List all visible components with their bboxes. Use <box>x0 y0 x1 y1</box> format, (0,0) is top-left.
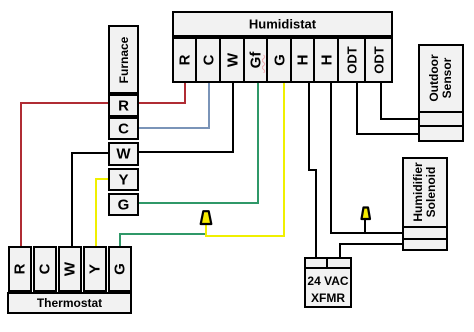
thermostat terminal C <box>33 246 57 292</box>
humidistat header box <box>172 11 393 37</box>
outdoor sensor box <box>418 44 464 142</box>
thermostat terminal W <box>58 246 82 292</box>
wire: green horizontal thermostat G to wire nut <box>119 233 205 235</box>
humidifier solenoid label area <box>402 157 448 226</box>
wire: black ODT2 down <box>380 83 382 120</box>
outdoor sensor divider 1 <box>420 111 462 113</box>
red squiggle under Gf <box>262 54 267 73</box>
wire: red humidistat R down <box>184 83 186 104</box>
wire: black H1 jog right <box>308 169 317 171</box>
humidistat terminal H (first) <box>291 37 315 83</box>
furnace terminal R <box>108 94 139 117</box>
furnace terminal G <box>108 193 139 216</box>
humidistat terminal divider C|W <box>219 37 221 83</box>
humidistat terminal Gf <box>243 37 268 83</box>
wire: blue horizontal to furnace C <box>139 127 210 129</box>
wire: black humidistat W down <box>232 83 234 153</box>
wire: green vertical up from thermostat G <box>119 233 121 246</box>
thermostat terminal Y <box>83 246 107 292</box>
humidistat terminal R <box>172 37 197 83</box>
humidistat terminal divider Gf|G <box>266 37 268 83</box>
furnace terminal C <box>108 117 139 140</box>
wire: black horizontal XFMR to solenoid <box>339 243 403 245</box>
humidistat terminal divider ODT|ODT <box>364 37 366 83</box>
wire: black ODT1 down <box>356 83 358 135</box>
humidistat terminal strip <box>172 37 393 83</box>
XFMR terminal row divider <box>306 267 350 269</box>
outdoor sensor divider 2 <box>420 125 462 127</box>
thermostat label box <box>7 292 132 314</box>
humidifier solenoid box <box>402 157 448 251</box>
outdoor sensor label area <box>418 44 464 112</box>
furnace header box <box>108 25 139 94</box>
wire: black H1 vertical down to XFMR left terminal <box>315 169 317 257</box>
wire: black humidistat H2 down <box>330 83 332 234</box>
thermostat terminal G <box>108 246 132 292</box>
humidistat terminal ODT (second) <box>365 37 393 83</box>
XFMR label <box>304 272 352 308</box>
wire: yellow vertical up to humidistat G <box>283 83 285 237</box>
humidistat terminal divider W|Gf <box>243 37 245 83</box>
wire: red horizontal left of furnace R <box>20 102 108 104</box>
humidistat terminal divider R|C <box>195 37 197 83</box>
wire nut 1 (yellow trapezoid splice) <box>197 209 215 227</box>
wire nut 2 (yellow trapezoid splice) <box>358 205 374 222</box>
wire: red horizontal furnace R right to humidistat R <box>139 102 186 104</box>
furnace terminal W <box>108 142 139 166</box>
wire: blue humidistat C down <box>208 83 210 129</box>
wire: black XFMR right terminal up <box>339 243 341 257</box>
humidistat terminal C <box>196 37 221 83</box>
wire: green horizontal to furnace G <box>139 202 259 204</box>
wire: red vertical down to thermostat R <box>20 102 22 246</box>
wire: green humidistat Gf down <box>257 83 259 203</box>
wire: yellow vertical down to thermostat Y <box>95 178 97 246</box>
wire: yellow horizontal left of furnace Y <box>95 178 108 180</box>
humidistat terminal divider H|H <box>313 37 315 83</box>
humidistat terminal W <box>220 37 245 83</box>
wire: black vertical down to thermostat W <box>71 152 73 246</box>
wire: black ODT2 horizontal to outdoor sensor <box>380 118 420 120</box>
humidistat terminal H (second) <box>314 37 339 83</box>
wire: black stub under wire nut 2 <box>364 220 366 232</box>
thermostat terminal R <box>8 246 32 292</box>
wire: black horizontal to furnace W <box>139 151 234 153</box>
XFMR terminal split <box>326 257 328 269</box>
wire: black horizontal left of furnace W <box>71 152 108 154</box>
humidifier solenoid divider 1 <box>404 226 446 228</box>
wire: yellow horizontal wire nut to below humidistat G <box>205 235 285 237</box>
humidistat terminal divider H|ODT <box>337 37 339 83</box>
wire: black humidistat H1 down <box>308 83 310 171</box>
humidistat terminal divider G|H <box>290 37 292 83</box>
wire: yellow stub under wire nut 1 <box>205 224 207 235</box>
24 VAC XFMR box <box>304 257 352 308</box>
wire: black H2 horizontal to solenoid <box>330 232 402 234</box>
humidifier solenoid divider 2 <box>404 238 446 240</box>
wire: black ODT1 horizontal to outdoor sensor <box>356 133 419 135</box>
humidistat terminal G <box>267 37 292 83</box>
humidistat terminal ODT (first) <box>338 37 366 83</box>
furnace terminal Y <box>108 168 139 191</box>
